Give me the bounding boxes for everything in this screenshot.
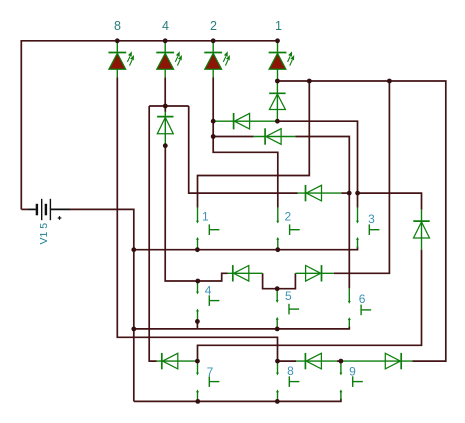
node bus1 battery feed (131, 247, 136, 252)
node LED8 top (115, 38, 120, 43)
node switch5 bottom (275, 327, 280, 332)
node switch2 bottom (275, 247, 280, 252)
diode row361 left pointing left (157, 353, 198, 369)
wire row193 right to vertical diode column (358, 193, 422, 210)
switch 9 push button (339, 361, 362, 399)
battery plus sign (58, 216, 62, 220)
node switch8 top (275, 359, 280, 364)
wire LED4 lower column to switch4 top and staircase (165, 146, 227, 281)
wire column x188 to row193 left (189, 106, 298, 193)
wire stub below LED4 node to diode (164, 106, 166, 112)
node LED1 top (275, 38, 280, 43)
wire vertical diode column to row345 to switch7 top (198, 250, 422, 362)
node switch7 bottom (195, 399, 200, 404)
switch 1 push button (196, 207, 219, 249)
wire column x149 to diode row361 (149, 106, 156, 361)
wire top bus and left battery column (21, 41, 277, 210)
wire bus2 switches 4-6 bottoms (134, 327, 349, 329)
diode row361 right pointing right (341, 353, 413, 369)
wire bus3 switches 7-9 bottoms (134, 399, 341, 402)
wire row81 LED1 anode to right column to diode row361 (278, 81, 446, 361)
node diode terminal x165 (163, 143, 168, 148)
wire bus1 switches 1-3 bottoms (134, 247, 358, 250)
LED D1 weight 1 (269, 41, 295, 81)
svg-text:2: 2 (210, 19, 217, 33)
node switch4 top (195, 279, 200, 284)
wire LED2 column to row152 to switch2 feed (213, 77, 278, 207)
switch 2 push button (276, 207, 299, 249)
node switch9 top (339, 359, 344, 364)
node row81 x309 (307, 79, 312, 84)
switch 3 push button (356, 207, 379, 248)
switch 5 push button (276, 289, 299, 329)
node LED2 top (211, 38, 216, 43)
diode vertical right column x421 (413, 210, 429, 250)
svg-text:5: 5 (285, 289, 292, 303)
node LED4 top (163, 38, 168, 43)
battery V1 left lead (29, 208, 36, 210)
svg-text:2: 2 (284, 209, 291, 223)
node row121 right (275, 119, 280, 124)
diode row273 pointing left (228, 265, 263, 281)
svg-text:7: 7 (207, 365, 214, 379)
wire row175 switch1 feed from LED1 node (198, 81, 310, 208)
node row193 B switch3 line (355, 191, 360, 196)
node switch7 top (195, 359, 200, 364)
wire switch4 bottom stub to bus2 (196, 321, 198, 329)
diode vertical below LED1 x277 (269, 81, 285, 121)
LED D8 weight 8 (108, 41, 134, 78)
node row121 left (211, 119, 216, 124)
svg-text:9: 9 (349, 364, 356, 378)
node row193 A switch6 line (347, 191, 352, 196)
node row81 x389 (387, 79, 392, 84)
diode row136 pointing left (254, 128, 295, 144)
wire LED4 stub (164, 77, 166, 106)
svg-text:8: 8 (287, 364, 294, 378)
diode row121 pointing left (213, 113, 277, 129)
wire row361 stub right of middle diode (337, 360, 341, 362)
wire row193 stub to node A (342, 192, 350, 194)
wire staircase jog down to switch5 top (263, 273, 278, 288)
svg-text:8: 8 (114, 19, 121, 33)
wire row273 to column x389 up to row81 (334, 81, 390, 273)
node bus2 battery feed (131, 327, 136, 332)
wire staircase jog up right of switch5 (277, 273, 295, 288)
switch 7 push button (196, 361, 219, 401)
wire battery positive feed column (69, 209, 134, 401)
LED D4 weight 4 (156, 41, 182, 78)
svg-text:6: 6 (359, 292, 366, 306)
node LED1 anode row81 (275, 79, 280, 84)
diode vertical at LED4 node x165 (157, 112, 173, 146)
node switch1 bottom (195, 247, 200, 252)
node switch8 bottom (275, 399, 280, 404)
diode row273 pointing right (295, 265, 333, 281)
wire row361 stub left of middle diode (278, 360, 297, 362)
switch 6 push button (348, 288, 371, 327)
node LED4 anode row106 (163, 104, 168, 109)
node switch5 top (275, 286, 280, 291)
diode row361 middle pointing left (296, 353, 337, 369)
wire row106 LED4 node (149, 105, 189, 107)
wire row121 right to switch3 column (277, 121, 357, 207)
LED D2 weight 2 (204, 41, 230, 78)
switch 8 push button (276, 361, 299, 401)
wire row136 left segment (213, 136, 254, 138)
node switch4 bottom terminal (195, 319, 200, 324)
svg-text:4: 4 (162, 19, 169, 33)
battery V1 plates (37, 199, 51, 220)
wire row136 right to switch6 column (295, 137, 349, 289)
wire LED8 column to row337 to switch8 top (117, 77, 277, 361)
svg-text:4: 4 (205, 284, 212, 298)
svg-text:1: 1 (275, 19, 282, 33)
switch 4 push button (196, 281, 219, 321)
diode row193 pointing left (298, 185, 342, 201)
wire battery negative stub (21, 208, 29, 210)
svg-text:V1 5: V1 5 (38, 223, 50, 245)
battery V1 right lead (51, 208, 70, 210)
svg-text:3: 3 (368, 212, 375, 226)
svg-text:1: 1 (202, 209, 209, 223)
node row136 left (211, 134, 216, 139)
